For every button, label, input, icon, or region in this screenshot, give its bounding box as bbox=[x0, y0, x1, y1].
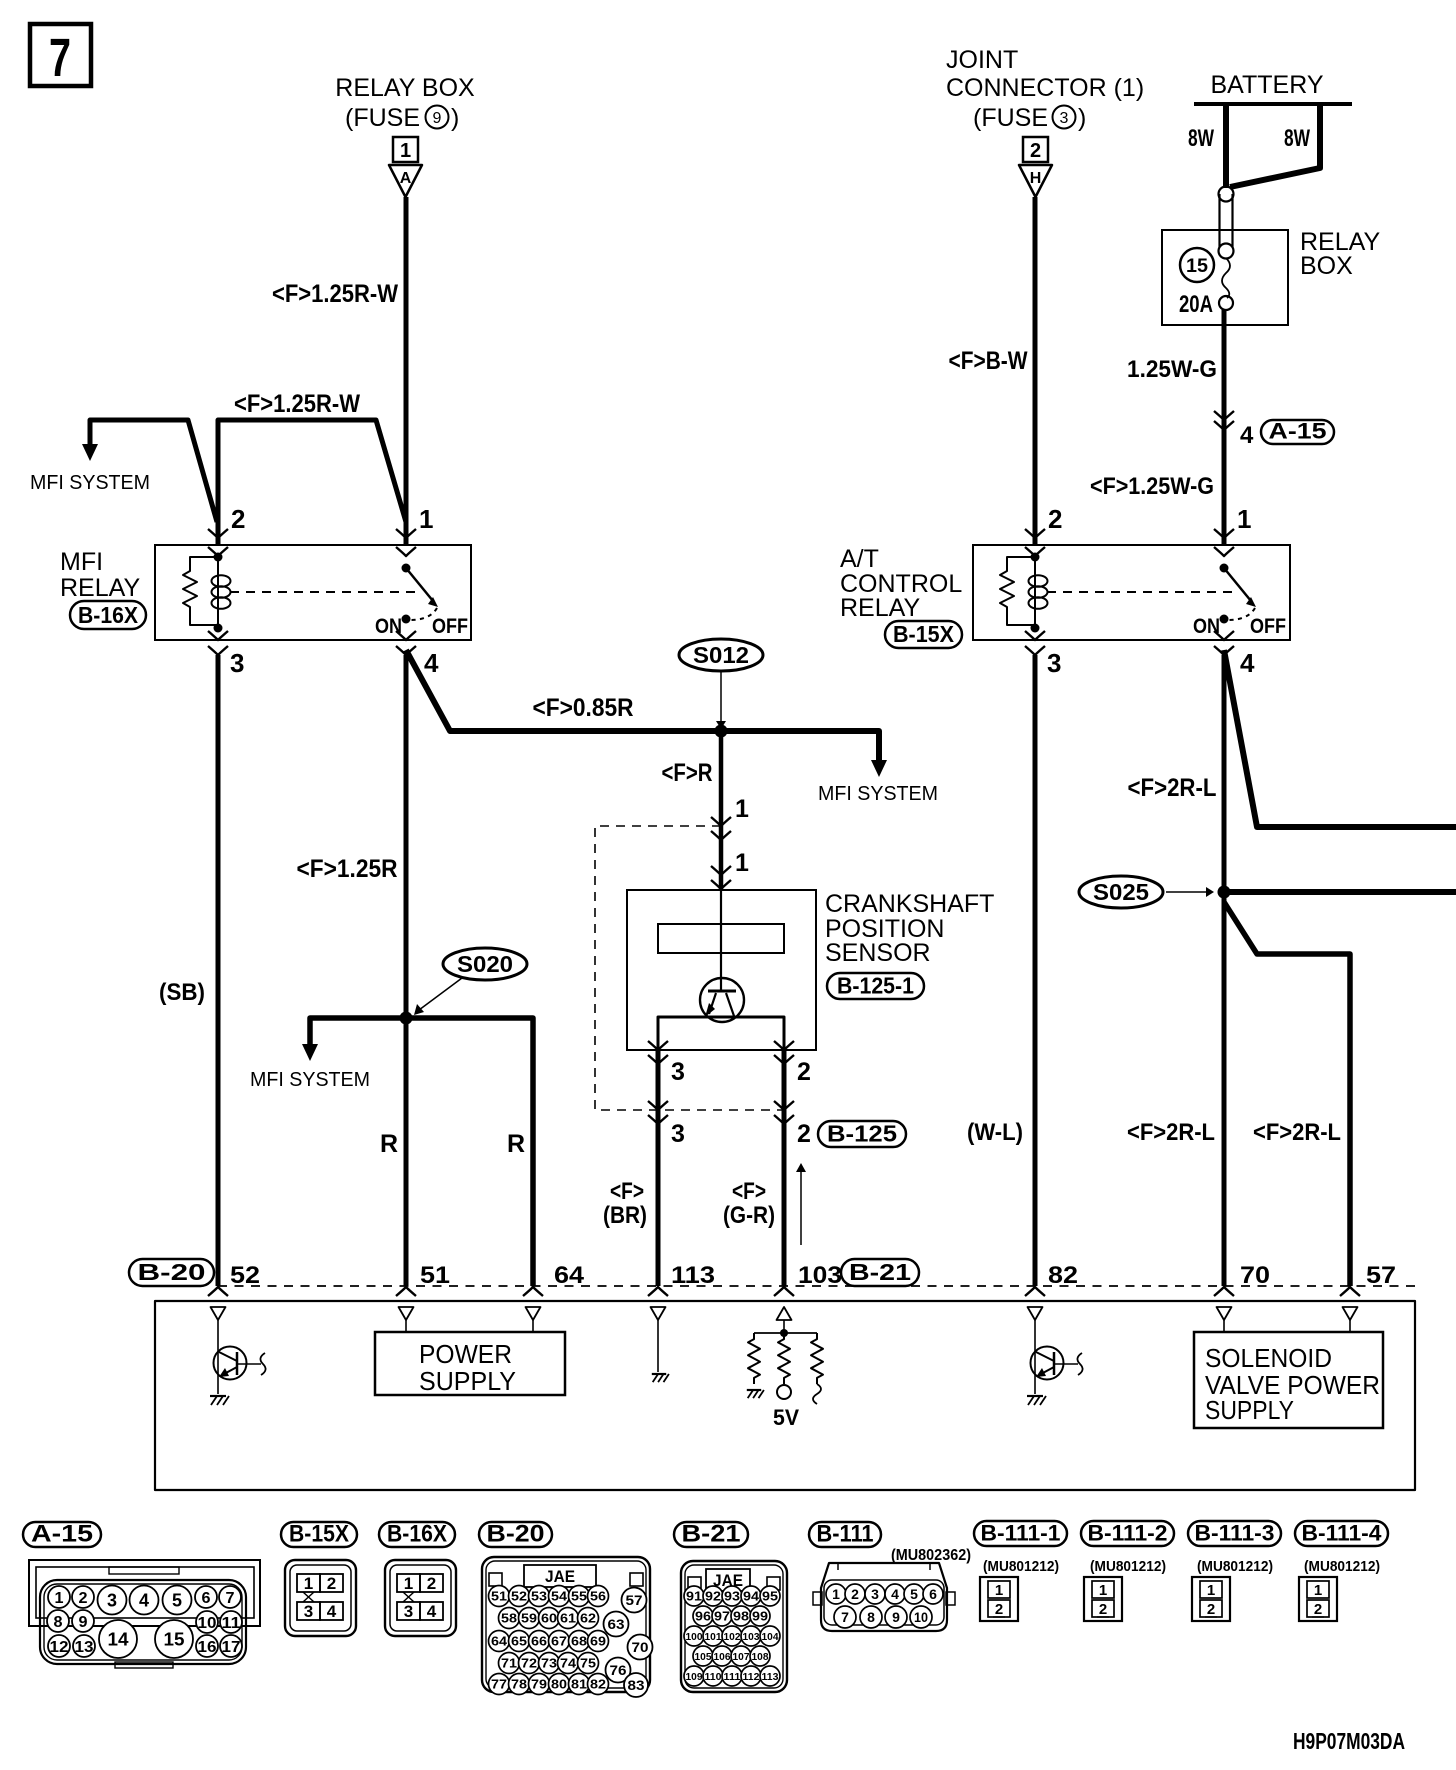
svg-text:1: 1 bbox=[735, 849, 749, 877]
svg-text:3: 3 bbox=[404, 1602, 413, 1621]
svg-text:2: 2 bbox=[797, 1120, 811, 1148]
splice S012 bbox=[679, 639, 763, 671]
svg-text:2: 2 bbox=[851, 1586, 859, 1602]
transistor Q2 (pin 82) bbox=[1031, 1347, 1064, 1380]
svg-text:13: 13 bbox=[75, 1639, 94, 1656]
svg-text:52: 52 bbox=[230, 1262, 260, 1289]
svg-text:94: 94 bbox=[743, 1589, 760, 1604]
fuse 2 triangle H bbox=[1019, 165, 1052, 197]
svg-text:3: 3 bbox=[230, 648, 244, 678]
svg-text:(W-L): (W-L) bbox=[967, 1119, 1023, 1146]
svg-text:BOX: BOX bbox=[1300, 252, 1353, 280]
transistor Q1 (pin 52) bbox=[214, 1347, 247, 1380]
ground (pin 82) bbox=[1027, 1395, 1043, 1397]
svg-text:96: 96 bbox=[695, 1609, 711, 1624]
connector label B-111-1 pinout bbox=[974, 1521, 1067, 1546]
svg-text:52: 52 bbox=[511, 1589, 527, 1604]
svg-text:(BR): (BR) bbox=[603, 1202, 647, 1229]
ECU pin 51 bbox=[396, 1287, 416, 1296]
svg-text:S025: S025 bbox=[1093, 879, 1149, 905]
svg-text:OFF: OFF bbox=[432, 615, 468, 638]
signal direction arrow up bbox=[800, 1172, 802, 1245]
connector B-111-1 drawing bbox=[980, 1577, 1018, 1621]
svg-text:<F>0.85R: <F>0.85R bbox=[533, 694, 634, 722]
fuse 2 terminal box bbox=[1023, 137, 1048, 162]
svg-text:B-16X: B-16X bbox=[78, 602, 139, 628]
svg-text:68: 68 bbox=[571, 1634, 587, 1649]
svg-text:103: 103 bbox=[743, 1631, 760, 1643]
connector label A-15 inline bbox=[1261, 420, 1334, 444]
svg-text:82: 82 bbox=[1048, 1262, 1078, 1289]
svg-text:99: 99 bbox=[752, 1609, 768, 1624]
wire battery fuse to A/T relay pin 1 bbox=[1222, 310, 1227, 545]
resistor R1 (5V net) bbox=[748, 1333, 760, 1384]
svg-text:A: A bbox=[400, 170, 412, 187]
svg-text:1.25W-G: 1.25W-G bbox=[1127, 356, 1217, 383]
svg-text:11: 11 bbox=[222, 1615, 241, 1632]
ground (pin 113) bbox=[652, 1373, 666, 1375]
svg-text:2: 2 bbox=[1207, 1601, 1215, 1618]
svg-text:B-111-2: B-111-2 bbox=[1088, 1521, 1168, 1546]
svg-text:113: 113 bbox=[671, 1262, 715, 1289]
battery wire right 8W bbox=[1230, 104, 1320, 187]
svg-text:8: 8 bbox=[54, 1614, 63, 1631]
svg-text:16: 16 bbox=[198, 1639, 217, 1656]
relay dashed control link bbox=[230, 591, 419, 593]
svg-text:B-125: B-125 bbox=[827, 1120, 897, 1146]
svg-text:67: 67 bbox=[551, 1634, 567, 1649]
svg-text:101: 101 bbox=[705, 1631, 722, 1643]
connector chevrons at dashed boundary pin 1 bbox=[711, 817, 731, 826]
connector B-111-2 drawing bbox=[1084, 1577, 1122, 1621]
svg-text:81: 81 bbox=[571, 1677, 587, 1692]
svg-text:4: 4 bbox=[891, 1586, 899, 1602]
svg-text:3: 3 bbox=[671, 1058, 685, 1086]
5V pull-up network top bus bbox=[754, 1332, 817, 1334]
svg-text:): ) bbox=[1078, 104, 1086, 132]
svg-text:1: 1 bbox=[404, 1574, 413, 1593]
svg-text:14: 14 bbox=[108, 1629, 129, 1649]
ECU pin 64 bbox=[523, 1287, 543, 1296]
svg-text:10: 10 bbox=[198, 1615, 217, 1632]
MFI relay box B-16X bbox=[155, 545, 471, 640]
svg-text:111: 111 bbox=[724, 1671, 741, 1683]
svg-text:B-125-1: B-125-1 bbox=[837, 972, 914, 998]
svg-text:7: 7 bbox=[841, 1609, 849, 1625]
svg-text:1: 1 bbox=[400, 140, 411, 162]
svg-text:4: 4 bbox=[139, 1590, 149, 1610]
svg-text:1: 1 bbox=[1237, 504, 1251, 534]
fuse 1 terminal box bbox=[393, 137, 418, 162]
connector label B-111-2 pinout bbox=[1081, 1521, 1174, 1546]
svg-text:B-111-4: B-111-4 bbox=[1302, 1521, 1383, 1546]
svg-text:(MU801212): (MU801212) bbox=[983, 1558, 1059, 1575]
connector B-15X pinout drawing bbox=[285, 1560, 356, 1636]
svg-text:5: 5 bbox=[172, 1590, 182, 1610]
A/T relay pin 2 bbox=[1025, 529, 1045, 538]
relay switch contacts bbox=[1220, 564, 1229, 573]
svg-text:98: 98 bbox=[733, 1609, 749, 1624]
svg-text:60: 60 bbox=[541, 1611, 557, 1626]
svg-text:<F>1.25R-W: <F>1.25R-W bbox=[234, 390, 360, 418]
svg-text:(MU801212): (MU801212) bbox=[1090, 1558, 1166, 1575]
svg-text:MFI SYSTEM: MFI SYSTEM bbox=[250, 1069, 370, 1091]
svg-text:108: 108 bbox=[752, 1651, 769, 1663]
ECU pin 103 bbox=[774, 1287, 794, 1296]
svg-text:66: 66 bbox=[531, 1634, 547, 1649]
fuse 15 circled bbox=[1180, 248, 1214, 282]
svg-text:B-20: B-20 bbox=[138, 1259, 206, 1285]
wire sensor pin3 to ECU 113 bbox=[656, 1050, 661, 1286]
svg-text:10: 10 bbox=[914, 1609, 928, 1625]
svg-text:8: 8 bbox=[867, 1609, 875, 1625]
svg-text:74: 74 bbox=[560, 1656, 577, 1671]
svg-text:OFF: OFF bbox=[1250, 615, 1286, 638]
svg-text:104: 104 bbox=[762, 1631, 779, 1643]
svg-text:7: 7 bbox=[49, 28, 71, 88]
svg-text:R: R bbox=[507, 1130, 525, 1158]
svg-text:BATTERY: BATTERY bbox=[1211, 71, 1324, 99]
svg-text:CRANKSHAFT: CRANKSHAFT bbox=[825, 890, 994, 918]
MFI relay pin 2 bbox=[208, 529, 228, 538]
svg-text:103: 103 bbox=[798, 1262, 842, 1289]
svg-text:B-15X: B-15X bbox=[289, 1521, 349, 1548]
svg-text:1: 1 bbox=[419, 504, 433, 534]
svg-text:5: 5 bbox=[910, 1586, 918, 1602]
svg-text:82: 82 bbox=[590, 1677, 606, 1692]
svg-text:RELAY: RELAY bbox=[840, 594, 920, 622]
svg-text:S020: S020 bbox=[457, 951, 513, 977]
svg-text:1: 1 bbox=[1207, 1582, 1215, 1599]
svg-text:2: 2 bbox=[1314, 1601, 1322, 1618]
wire sensor pin2 to ECU 103 bbox=[782, 1050, 787, 1286]
svg-text:12: 12 bbox=[50, 1639, 69, 1656]
svg-text:77: 77 bbox=[491, 1677, 507, 1692]
connector label B-21 bbox=[841, 1259, 919, 1286]
svg-text:(G-R): (G-R) bbox=[723, 1202, 775, 1229]
ECU dashed boundary line bbox=[218, 1285, 1415, 1287]
connector label B-20 pinout bbox=[479, 1522, 552, 1547]
crankshaft position sensor box bbox=[627, 890, 816, 1050]
svg-text:61: 61 bbox=[560, 1611, 576, 1626]
ECU pin 57 bbox=[1340, 1287, 1360, 1296]
svg-text:POWER: POWER bbox=[419, 1339, 512, 1369]
svg-text:<F>: <F> bbox=[732, 1178, 766, 1205]
svg-text:55: 55 bbox=[571, 1589, 587, 1604]
svg-text:B-15X: B-15X bbox=[893, 621, 955, 647]
svg-text:91: 91 bbox=[686, 1589, 702, 1604]
svg-text:59: 59 bbox=[521, 1611, 537, 1626]
svg-text:57: 57 bbox=[626, 1592, 643, 1608]
svg-text:B-16X: B-16X bbox=[387, 1521, 447, 1548]
svg-text:SUPPLY: SUPPLY bbox=[419, 1366, 516, 1396]
POWER SUPPLY box bbox=[375, 1332, 565, 1395]
svg-text:A-15: A-15 bbox=[1269, 419, 1327, 444]
wire S020 branch to MFI system and ECU 64 bbox=[310, 1018, 533, 1286]
fuse 1 triangle A bbox=[389, 165, 422, 197]
svg-text:3: 3 bbox=[107, 1590, 117, 1610]
connector label B-125-1 bbox=[827, 973, 924, 999]
connector B-20 pinout drawing bbox=[482, 1557, 650, 1692]
svg-text:8W: 8W bbox=[1284, 125, 1310, 152]
svg-text:<F>: <F> bbox=[610, 1178, 644, 1205]
svg-text:6: 6 bbox=[929, 1586, 937, 1602]
svg-text:106: 106 bbox=[714, 1651, 731, 1663]
svg-text:1: 1 bbox=[304, 1574, 313, 1593]
svg-text:B-111: B-111 bbox=[817, 1521, 874, 1548]
SOLENOID VALVE POWER SUPPLY box bbox=[1194, 1332, 1383, 1428]
svg-text:51: 51 bbox=[420, 1262, 450, 1289]
connector label B-16X bbox=[70, 601, 146, 629]
svg-text:17: 17 bbox=[222, 1639, 241, 1656]
svg-text:63: 63 bbox=[608, 1616, 625, 1632]
dashed harness boundary box B-125 bbox=[595, 826, 791, 1110]
svg-text:(SB): (SB) bbox=[159, 979, 205, 1006]
sensor pin 3 bbox=[648, 1041, 668, 1050]
svg-text:ON: ON bbox=[1193, 615, 1220, 638]
ECU pin 113 input triangle bbox=[651, 1307, 666, 1320]
svg-text:1: 1 bbox=[735, 795, 749, 823]
svg-text:58: 58 bbox=[501, 1611, 517, 1626]
battery bus bar bbox=[1194, 102, 1352, 106]
svg-text:54: 54 bbox=[551, 1589, 568, 1604]
svg-text:B-111-3: B-111-3 bbox=[1195, 1521, 1275, 1546]
svg-text:3: 3 bbox=[304, 1602, 313, 1621]
ground (5V net) bbox=[747, 1389, 761, 1391]
svg-text:15: 15 bbox=[1186, 256, 1208, 277]
svg-text:71: 71 bbox=[501, 1656, 517, 1671]
svg-text:64: 64 bbox=[554, 1262, 585, 1289]
svg-text:RELAY: RELAY bbox=[60, 574, 140, 602]
ECU pin 64 input triangle bbox=[526, 1307, 541, 1320]
svg-text:2: 2 bbox=[427, 1574, 436, 1593]
svg-text:4: 4 bbox=[1240, 648, 1255, 678]
svg-text:(MU802362): (MU802362) bbox=[891, 1547, 971, 1564]
svg-text:MFI: MFI bbox=[60, 548, 103, 576]
svg-text:79: 79 bbox=[531, 1677, 547, 1692]
wire S025 branch to ECU 57 bbox=[1224, 902, 1350, 1286]
connector A-15 inline chevrons bbox=[1214, 411, 1234, 420]
svg-text:97: 97 bbox=[714, 1609, 730, 1624]
page number 7 box bbox=[30, 24, 91, 86]
svg-text:109: 109 bbox=[686, 1671, 703, 1683]
svg-text:102: 102 bbox=[724, 1631, 741, 1643]
connector label B-125 bbox=[818, 1121, 906, 1147]
connector label B-111-3 pinout bbox=[1188, 1521, 1281, 1546]
svg-text:53: 53 bbox=[531, 1589, 547, 1604]
svg-text:S012: S012 bbox=[693, 642, 749, 668]
A/T relay pin 1 bbox=[1214, 529, 1234, 538]
svg-text:100: 100 bbox=[686, 1631, 703, 1643]
node S012 junction dot bbox=[715, 725, 728, 738]
5V source bbox=[777, 1385, 791, 1399]
svg-text:112: 112 bbox=[743, 1671, 760, 1683]
svg-text:1: 1 bbox=[1314, 1582, 1322, 1599]
svg-text:72: 72 bbox=[521, 1656, 537, 1671]
wire fuse9 to MFI relay pin 1 bbox=[404, 197, 409, 545]
wire A/T relay pin4 to ECU 70 bbox=[1222, 655, 1227, 1286]
wire A/T relay pin3 to ECU 82 (W-L) bbox=[1033, 655, 1038, 1286]
svg-text:H: H bbox=[1030, 170, 1042, 187]
ECU pin 103 output triangle bbox=[777, 1307, 792, 1320]
svg-text:B-111-1: B-111-1 bbox=[981, 1521, 1061, 1546]
wire S012 to crankshaft sensor pin 1 bbox=[719, 731, 724, 890]
ECU box bbox=[155, 1301, 1415, 1490]
ground (pin 52) bbox=[210, 1395, 226, 1397]
svg-text:B-20: B-20 bbox=[487, 1521, 545, 1548]
svg-text:2: 2 bbox=[327, 1574, 336, 1593]
svg-text:CONNECTOR (1): CONNECTOR (1) bbox=[946, 74, 1144, 102]
connector B-111 pinout drawing bbox=[821, 1563, 947, 1631]
svg-text:75: 75 bbox=[580, 1656, 596, 1671]
svg-text:20A: 20A bbox=[1179, 291, 1213, 318]
svg-text:1: 1 bbox=[995, 1582, 1003, 1599]
ECU pin 52 input triangle bbox=[211, 1307, 226, 1320]
connector label B-15X pinout bbox=[281, 1522, 357, 1547]
svg-text:92: 92 bbox=[705, 1589, 721, 1604]
ECU pin 82 bbox=[1025, 1287, 1045, 1296]
connector B-125 chevrons pin 2 bbox=[774, 1101, 794, 1110]
resistor R2 (5V net) bbox=[778, 1333, 790, 1384]
svg-text:SENSOR: SENSOR bbox=[825, 939, 931, 967]
wire MFI relay pin4 down to ECU 51 bbox=[404, 655, 409, 1286]
svg-text:15: 15 bbox=[164, 1629, 185, 1649]
MFI relay pin 1 bbox=[396, 529, 416, 538]
svg-text:73: 73 bbox=[541, 1656, 557, 1671]
connector chevrons at sensor pin 1 bbox=[711, 866, 731, 875]
svg-text:2: 2 bbox=[79, 1590, 88, 1607]
connector B-21 pinout drawing bbox=[681, 1561, 787, 1692]
svg-text:64: 64 bbox=[491, 1634, 508, 1649]
node S025 junction dot bbox=[1218, 886, 1231, 899]
svg-text:A/T: A/T bbox=[840, 545, 879, 573]
ECU pin 70 input triangle bbox=[1217, 1307, 1232, 1320]
ECU pin 52 bbox=[208, 1287, 228, 1296]
wire branch pin2 to pin1 loop bbox=[218, 420, 406, 545]
svg-text:78: 78 bbox=[511, 1677, 527, 1692]
connector B-125 chevrons pin 3 bbox=[648, 1101, 668, 1110]
svg-text:R: R bbox=[380, 1130, 398, 1158]
battery wire left 8W bbox=[1223, 104, 1229, 188]
svg-text:<F>2R-L: <F>2R-L bbox=[1253, 1119, 1341, 1146]
ECU pin 57 input triangle bbox=[1343, 1307, 1358, 1320]
ECU pin 51 input triangle bbox=[399, 1307, 414, 1320]
fuse element squiggle bbox=[1222, 258, 1230, 298]
wire joint connector to A/T relay pin 2 bbox=[1033, 197, 1038, 545]
connector B-111-3 drawing bbox=[1192, 1577, 1230, 1621]
svg-text:ON: ON bbox=[375, 615, 402, 638]
svg-text:2: 2 bbox=[995, 1601, 1003, 1618]
svg-text:110: 110 bbox=[705, 1671, 722, 1683]
svg-text:RELAY BOX: RELAY BOX bbox=[335, 74, 475, 102]
MFI relay pin 4 bbox=[396, 631, 416, 640]
connector label B-16X pinout bbox=[379, 1522, 455, 1547]
ECU pin 113 bbox=[648, 1287, 668, 1296]
relay internal coil bbox=[214, 553, 223, 562]
svg-text:62: 62 bbox=[580, 1611, 596, 1626]
svg-text:JOINT: JOINT bbox=[946, 46, 1018, 74]
svg-text:2: 2 bbox=[231, 504, 245, 534]
connector label B-15X bbox=[885, 621, 962, 648]
svg-text:3: 3 bbox=[1047, 648, 1061, 678]
svg-text:3: 3 bbox=[1060, 110, 1069, 127]
svg-text:70: 70 bbox=[632, 1639, 649, 1655]
svg-text:A-15: A-15 bbox=[31, 1521, 93, 1548]
svg-text:80: 80 bbox=[551, 1677, 567, 1692]
relay dashed control link bbox=[1047, 591, 1237, 593]
node S020 junction dot bbox=[400, 1012, 413, 1025]
connector B-16X pinout drawing bbox=[385, 1560, 456, 1636]
svg-text:MFI SYSTEM: MFI SYSTEM bbox=[818, 783, 938, 805]
svg-text:1: 1 bbox=[55, 1590, 64, 1607]
svg-text:113: 113 bbox=[762, 1671, 779, 1683]
splice S020 bbox=[443, 948, 527, 980]
svg-text:): ) bbox=[451, 104, 459, 132]
fusible link capsule bbox=[1219, 187, 1234, 202]
sensor bottom bus bbox=[658, 1017, 784, 1050]
sensor coil rectangle bbox=[658, 924, 784, 953]
sensor pin 2 bbox=[774, 1041, 794, 1050]
svg-text:(FUSE: (FUSE bbox=[345, 104, 420, 132]
svg-text:1: 1 bbox=[832, 1586, 840, 1602]
svg-text:95: 95 bbox=[762, 1589, 778, 1604]
svg-text:7: 7 bbox=[226, 1590, 235, 1607]
A/T control relay box B-15X bbox=[973, 545, 1290, 640]
svg-text:3: 3 bbox=[871, 1586, 879, 1602]
svg-text:70: 70 bbox=[1240, 1262, 1270, 1289]
connector A-15 pinout drawing bbox=[29, 1560, 260, 1626]
svg-text:56: 56 bbox=[590, 1589, 606, 1604]
svg-text:2: 2 bbox=[797, 1058, 811, 1086]
A/T relay pin 4 bbox=[1214, 631, 1234, 640]
relay switch contacts bbox=[402, 564, 411, 573]
svg-text:H9P07M03DA: H9P07M03DA bbox=[1293, 1728, 1405, 1754]
svg-text:4: 4 bbox=[427, 1602, 437, 1621]
ECU pin 70 bbox=[1214, 1287, 1234, 1296]
svg-text:51: 51 bbox=[491, 1589, 507, 1604]
svg-text:B-21: B-21 bbox=[682, 1521, 741, 1548]
svg-text:SOLENOID: SOLENOID bbox=[1205, 1343, 1332, 1373]
svg-text:2: 2 bbox=[1099, 1601, 1107, 1618]
connector label B-111 pinout bbox=[809, 1522, 881, 1547]
svg-text:4: 4 bbox=[424, 648, 439, 678]
relay internal coil bbox=[1031, 553, 1040, 562]
svg-text:<F>2R-L: <F>2R-L bbox=[1127, 1119, 1215, 1146]
svg-text:(MU801212): (MU801212) bbox=[1197, 1558, 1273, 1575]
svg-text:4: 4 bbox=[1240, 422, 1254, 449]
MFI relay pin 3 bbox=[208, 631, 228, 640]
wire MFI relay pin3 to ECU 52 (SB) bbox=[216, 655, 221, 1286]
svg-text:69: 69 bbox=[590, 1634, 606, 1649]
svg-text:<F>1.25W-G: <F>1.25W-G bbox=[1090, 473, 1214, 500]
resistor R3 (5V net) bbox=[811, 1333, 823, 1384]
svg-text:105: 105 bbox=[695, 1651, 712, 1663]
svg-text:3: 3 bbox=[671, 1120, 685, 1148]
sensor internal wire bbox=[720, 890, 722, 991]
svg-text:9: 9 bbox=[79, 1614, 88, 1631]
connector label B-21 pinout bbox=[674, 1522, 748, 1547]
svg-text:5V: 5V bbox=[773, 1405, 799, 1430]
svg-text:SUPPLY: SUPPLY bbox=[1205, 1395, 1294, 1425]
svg-text:<F>R: <F>R bbox=[662, 759, 713, 787]
svg-text:(FUSE: (FUSE bbox=[973, 104, 1048, 132]
connector label A-15 pinout bbox=[23, 1522, 101, 1547]
svg-text:<F>B-W: <F>B-W bbox=[949, 347, 1028, 375]
A/T relay pin 3 bbox=[1025, 631, 1045, 640]
connector label B-111-4 pinout bbox=[1295, 1521, 1388, 1546]
svg-text:1: 1 bbox=[1099, 1582, 1107, 1599]
splice S025 bbox=[1079, 876, 1163, 908]
